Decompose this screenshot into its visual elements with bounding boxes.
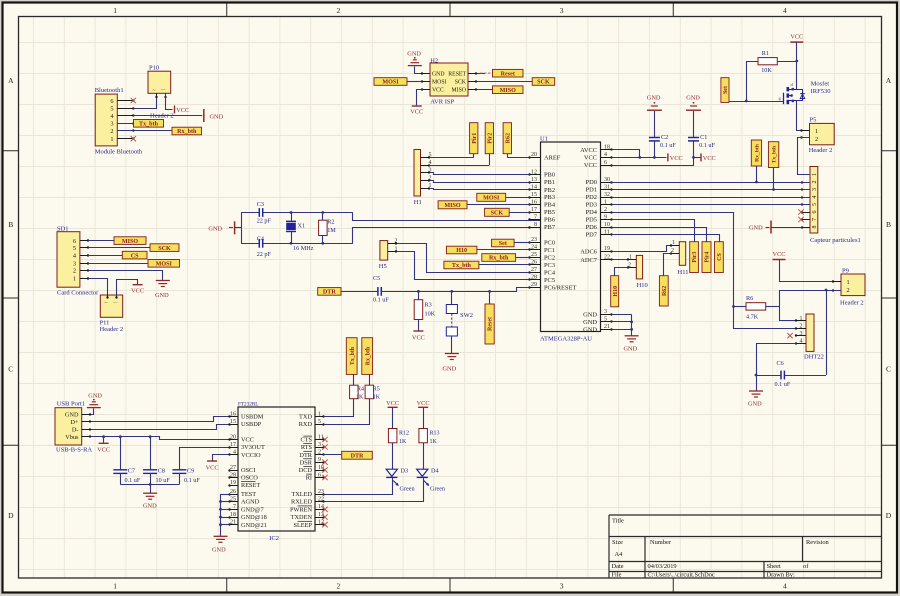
- svg-text:GND: GND: [583, 327, 597, 334]
- wire R1 right lead: [777, 61, 797, 63]
- power VCC top right: [790, 34, 803, 43]
- power GND earth at SD1: [155, 281, 170, 300]
- svg-text:D-: D-: [72, 427, 79, 434]
- svg-text:RTS: RTS: [301, 444, 313, 451]
- svg-text:D3: D3: [401, 468, 409, 475]
- wire Capteur pin8 to GND: [771, 227, 802, 229]
- wire U1 GND pins to earth: [612, 314, 632, 335]
- svg-text:5: 5: [812, 203, 818, 206]
- svg-text:—: —: [160, 87, 166, 92]
- wire H2 RESET to Reset label: [476, 72, 491, 74]
- svg-text:PC0: PC0: [544, 240, 555, 247]
- svg-text:20: 20: [531, 152, 537, 158]
- svg-text:MOSI: MOSI: [483, 196, 500, 202]
- svg-text:Set: Set: [499, 241, 507, 247]
- svg-text:RXD: RXD: [299, 421, 313, 428]
- svg-text:VCC: VCC: [131, 288, 144, 295]
- svg-text:10: 10: [604, 222, 610, 228]
- svg-text:VCC: VCC: [703, 155, 716, 162]
- diode D3 Green LED: [386, 468, 414, 493]
- svg-text:1: 1: [73, 276, 76, 283]
- wire R4 to TXD: [324, 399, 354, 417]
- svg-text:GND@7: GND@7: [241, 507, 264, 514]
- svg-text:4: 4: [812, 196, 818, 199]
- svg-text:VCC: VCC: [97, 447, 110, 454]
- capacitor C9 0.1uF: [172, 448, 229, 485]
- wire H5 pin2 to PC4: [397, 244, 530, 273]
- net label Tx_bth vertical at PD1: [768, 142, 778, 190]
- svg-text:VCC: VCC: [584, 162, 597, 169]
- svg-text:PD2: PD2: [586, 194, 597, 201]
- svg-text:7: 7: [534, 214, 537, 220]
- svg-text:26: 26: [531, 260, 537, 266]
- wire PD1 to Capteur pin3: [612, 189, 811, 191]
- svg-text:0.1 uF: 0.1 uF: [699, 142, 715, 149]
- svg-text:3: 3: [560, 6, 564, 15]
- svg-text:MOSI: MOSI: [432, 80, 447, 86]
- power VCC above R13: [417, 400, 430, 429]
- wire DTR pin: [324, 454, 342, 456]
- power GND earth above USB: [87, 393, 103, 408]
- svg-text:Tx_bth: Tx_bth: [772, 145, 778, 163]
- net label DTR at reset capacitor: [318, 288, 341, 296]
- svg-text:AVR ISP: AVR ISP: [430, 99, 454, 106]
- svg-text:D4: D4: [431, 468, 439, 475]
- svg-text:GND: GND: [407, 51, 421, 58]
- svg-text:VCCIO: VCCIO: [241, 452, 261, 459]
- header H10: [627, 255, 648, 290]
- wire H10 pin2 to H10 label: [615, 268, 629, 276]
- no-connect X on Bluetooth pin 6: [131, 98, 136, 103]
- svg-text:USB-B-S-RA: USB-B-S-RA: [56, 447, 92, 454]
- wire H2 SCK to SCK label: [476, 81, 532, 83]
- wire USB GND pin to earth: [91, 409, 94, 415]
- svg-text:1K: 1K: [356, 395, 364, 401]
- svg-text:C9: C9: [187, 468, 194, 475]
- svg-text:Green: Green: [400, 486, 415, 493]
- svg-text:16 MHz: 16 MHz: [293, 245, 314, 252]
- svg-text:PC5: PC5: [544, 277, 555, 284]
- net label H10 at PC1: [446, 246, 477, 254]
- svg-text:H1: H1: [414, 199, 422, 206]
- svg-text:1M: 1M: [327, 227, 336, 234]
- junction dots U1 GND bus: [630, 321, 633, 331]
- svg-text:R12: R12: [399, 431, 409, 437]
- net label Rx_bth at PC2: [482, 254, 516, 262]
- svg-text:PC2: PC2: [544, 255, 555, 262]
- svg-text:TXDEN: TXDEN: [291, 514, 313, 521]
- svg-text:PD0: PD0: [586, 179, 597, 186]
- power GND earth below C8: [143, 493, 157, 509]
- svg-text:B: B: [886, 220, 891, 229]
- svg-text:16: 16: [531, 199, 537, 205]
- svg-text:1: 1: [113, 582, 117, 591]
- wire SD pin1 to P11: [89, 279, 108, 296]
- svg-text:31: 31: [604, 184, 610, 190]
- wire H1 pin4 to Pir2: [429, 165, 489, 167]
- wire Bluetooth pin3 Tx_bth: [117, 123, 133, 125]
- header H5: [379, 238, 398, 270]
- wire VCC pin4 rail: [612, 157, 667, 159]
- wire H1 pin3 to PB0: [430, 173, 530, 175]
- net label Pir3 vertical at PD5: [690, 242, 699, 273]
- svg-text:USBDM: USBDM: [241, 414, 264, 421]
- capacitor C7 0.1uF: [113, 437, 141, 485]
- svg-text:MOSI: MOSI: [156, 262, 173, 268]
- svg-text:Pir1: Pir1: [472, 133, 478, 144]
- svg-text:VCC: VCC: [410, 109, 423, 116]
- svg-text:1: 1: [815, 128, 818, 135]
- net label SCK at SD1: [150, 244, 179, 252]
- svg-text:10 uF: 10 uF: [156, 477, 171, 484]
- svg-text:VCC: VCC: [206, 465, 219, 472]
- svg-text:11: 11: [604, 229, 610, 235]
- svg-text:4: 4: [604, 152, 607, 158]
- junction dots crystal: [290, 211, 325, 245]
- svg-text:PC4: PC4: [544, 270, 556, 277]
- crystal X1 16MHz: [286, 213, 314, 253]
- net label MOSI at H2: [374, 78, 407, 86]
- resistor R5 1K: [365, 385, 381, 400]
- wire USB D- to USBDP: [91, 425, 230, 430]
- svg-text:28: 28: [230, 472, 236, 478]
- svg-text:Header 2: Header 2: [840, 300, 864, 307]
- svg-text:of: of: [803, 563, 809, 570]
- net label H10 vertical: [611, 276, 619, 307]
- svg-text:22: 22: [604, 255, 610, 261]
- svg-text:21: 21: [230, 520, 236, 526]
- svg-text:1: 1: [318, 411, 321, 417]
- wire PD7 to CS: [612, 235, 720, 242]
- svg-text:2: 2: [815, 136, 818, 143]
- net label Tx_bth at PC3: [444, 261, 479, 269]
- net label Set at PC0: [492, 239, 514, 247]
- svg-text:VCC: VCC: [773, 251, 786, 258]
- resistor R6 4.7K: [746, 295, 766, 321]
- svg-text:PD3: PD3: [586, 202, 597, 209]
- wire PD4 to R6 and DHT22 data: [612, 213, 797, 329]
- svg-text:R6: R6: [746, 295, 753, 302]
- svg-text:CS: CS: [131, 253, 139, 259]
- svg-text:RESET: RESET: [448, 71, 466, 77]
- svg-text:16: 16: [230, 411, 236, 417]
- svg-text:PD4: PD4: [586, 209, 598, 216]
- svg-text:AGND: AGND: [241, 499, 260, 506]
- wire AVCC to VCC rail: [612, 150, 640, 158]
- svg-text:C:\Users\..\circuit.SchDoc: C:\Users\..\circuit.SchDoc: [648, 572, 715, 579]
- wire USB D+ to USBDM: [91, 417, 230, 422]
- svg-text:VCC: VCC: [417, 400, 430, 407]
- net label CS at SD1: [122, 251, 147, 259]
- svg-text:GND: GND: [208, 226, 222, 233]
- power VCC at P11: [131, 285, 144, 295]
- svg-text:VCC: VCC: [790, 34, 803, 41]
- svg-text:H11: H11: [678, 269, 689, 276]
- resistor R13 1K: [419, 429, 440, 446]
- svg-text:13: 13: [531, 177, 537, 183]
- net label Pir4 vertical at PD6: [702, 242, 711, 273]
- svg-text:PD6: PD6: [586, 224, 597, 231]
- wire C6 right to P9 pin2 net: [784, 290, 826, 376]
- svg-text:SCK: SCK: [455, 80, 467, 86]
- wire SD pin6 MISO: [88, 240, 114, 242]
- svg-text:Rx_bth: Rx_bth: [489, 256, 509, 262]
- svg-text:2: 2: [847, 287, 850, 294]
- junction dot gate wire: [745, 100, 748, 103]
- resistor R12 1K: [388, 429, 409, 446]
- svg-text:23: 23: [531, 237, 537, 243]
- resistor R3 10K: [414, 291, 435, 330]
- svg-text:0.1 uF: 0.1 uF: [373, 297, 389, 304]
- svg-text:6: 6: [604, 160, 607, 166]
- svg-text:VCC: VCC: [241, 437, 254, 444]
- svg-text:H5: H5: [379, 263, 387, 270]
- no-connect X on Bluetooth pin 1: [131, 136, 136, 141]
- svg-text:GND: GND: [443, 366, 457, 373]
- wire Tx_bth to PC3: [479, 264, 530, 266]
- svg-text:Pir2: Pir2: [487, 133, 493, 144]
- no-connect X Capteur pin7: [798, 217, 803, 222]
- power VCC at H2: [410, 106, 423, 116]
- svg-text:28: 28: [531, 275, 537, 281]
- svg-text:VCC: VCC: [584, 155, 597, 162]
- net label Rx_bth vertical at R5: [362, 338, 373, 386]
- svg-text:24: 24: [531, 245, 537, 251]
- svg-text:7: 7: [233, 504, 236, 510]
- svg-text:D: D: [886, 511, 892, 520]
- power VCC at DHT22 area: [773, 251, 786, 260]
- svg-text:25: 25: [531, 252, 537, 258]
- no-connect X marks on IC2 right pins: [322, 437, 327, 528]
- svg-text:MISO: MISO: [452, 88, 467, 94]
- svg-text:AREF: AREF: [544, 155, 561, 162]
- transistor Q1 Mosfet IRF530: [779, 81, 831, 105]
- svg-text:DTR: DTR: [323, 290, 336, 296]
- wire SD pin4 CS: [88, 255, 122, 257]
- svg-text:2: 2: [337, 582, 341, 591]
- wire P10 pin2 to VCC: [166, 94, 173, 110]
- ic U1 left pins: [528, 152, 576, 291]
- net label Reset at H2: [493, 69, 524, 77]
- svg-text:GND: GND: [748, 401, 762, 408]
- wire PD5 to Pir3: [612, 220, 695, 242]
- svg-text:FT232RL: FT232RL: [238, 401, 258, 407]
- svg-text:Bluetooth1: Bluetooth1: [95, 87, 124, 94]
- svg-text:ADC7: ADC7: [580, 257, 597, 264]
- svg-text:GND: GND: [686, 95, 700, 102]
- header P10: [148, 65, 174, 120]
- svg-text:Title: Title: [612, 518, 624, 525]
- svg-text:0.1 uF: 0.1 uF: [660, 142, 676, 149]
- svg-text:5: 5: [318, 419, 321, 425]
- svg-text:Rx_bth: Rx_bth: [755, 143, 761, 162]
- svg-text:17: 17: [531, 207, 537, 213]
- svg-text:GND: GND: [432, 71, 445, 77]
- sensor DHT22: [795, 314, 824, 361]
- svg-text:TXD: TXD: [299, 414, 312, 421]
- svg-text:PD1: PD1: [586, 187, 597, 194]
- svg-text:19: 19: [604, 246, 610, 252]
- svg-text:VCC: VCC: [432, 88, 444, 94]
- power GND bar at crystal: [208, 221, 234, 234]
- svg-text:GND: GND: [88, 393, 102, 400]
- svg-text:Number: Number: [650, 539, 672, 546]
- svg-text:MOSI: MOSI: [382, 80, 399, 86]
- svg-text:3: 3: [560, 582, 564, 591]
- svg-text:1: 1: [604, 199, 607, 205]
- svg-text:~: ~: [153, 88, 156, 94]
- svg-text:0.1 uF: 0.1 uF: [775, 381, 791, 388]
- wire crystal top rail: [241, 212, 353, 214]
- svg-text:ATMEGA328P-AU: ATMEGA328P-AU: [540, 336, 592, 343]
- svg-text:R62: R62: [662, 286, 668, 296]
- svg-text:Mosfet: Mosfet: [811, 81, 830, 88]
- header H2 AVR ISP: [421, 58, 477, 106]
- wire PD2 to Capteur pin4: [612, 197, 811, 199]
- svg-text:DHT22: DHT22: [804, 354, 824, 361]
- wire Set to PC0: [514, 242, 529, 244]
- wire P5 pin2 down to Capteur pin1: [798, 138, 811, 175]
- net label MISO at PB4: [438, 201, 467, 209]
- svg-text:R5: R5: [373, 387, 380, 393]
- svg-text:GND: GND: [583, 312, 597, 319]
- svg-text:ADC6: ADC6: [580, 249, 597, 256]
- wire R13 to D4: [423, 443, 425, 469]
- svg-text:17: 17: [230, 442, 236, 448]
- capacitor C4 22pF: [257, 236, 272, 259]
- svg-text:D: D: [8, 511, 14, 520]
- net label Tx_bth vertical at R4: [346, 338, 357, 386]
- svg-text:PB4: PB4: [544, 202, 556, 209]
- wire reset net to PC6: [382, 288, 530, 292]
- wire D3 to TXLED: [324, 478, 393, 495]
- svg-text:9: 9: [604, 214, 607, 220]
- svg-text:Reset: Reset: [501, 71, 515, 77]
- svg-text:1: 1: [847, 279, 850, 286]
- wire AREF: [507, 157, 529, 159]
- svg-text:Tx_bth: Tx_bth: [350, 346, 356, 365]
- svg-text:5: 5: [604, 317, 607, 323]
- svg-text:4.7K: 4.7K: [746, 314, 759, 321]
- wire MOSI to H2: [407, 81, 422, 83]
- svg-text:R62: R62: [505, 133, 511, 143]
- svg-text:GND: GND: [647, 95, 661, 102]
- svg-text:A4: A4: [615, 551, 624, 558]
- svg-text:26: 26: [230, 489, 236, 495]
- svg-text:X1: X1: [298, 223, 306, 230]
- wire VCC to mosfet drain: [796, 42, 798, 89]
- svg-text:IRF530: IRF530: [811, 88, 831, 95]
- connector Capteur particules1: [801, 167, 861, 245]
- svg-text:22 pF: 22 pF: [257, 251, 272, 258]
- header H1: [414, 150, 432, 207]
- svg-text:22: 22: [318, 496, 324, 502]
- svg-text:Date: Date: [612, 563, 624, 570]
- svg-text:12: 12: [531, 169, 537, 175]
- junction dot C6 left: [755, 374, 758, 377]
- wire R1 left lead down to gate: [747, 62, 759, 102]
- wire P11 pin2 to VCC: [117, 280, 138, 296]
- wire H11 pin2 to R62 label: [664, 254, 672, 276]
- resistor R2 1M: [319, 213, 337, 244]
- title block: [609, 515, 882, 579]
- svg-text:H10: H10: [456, 248, 467, 254]
- wire SCK to PB5: [509, 212, 529, 214]
- svg-text:GND: GND: [212, 547, 226, 554]
- svg-text:H10: H10: [637, 282, 648, 289]
- diode D4 Green LED: [417, 468, 445, 493]
- svg-text:15: 15: [531, 192, 537, 198]
- net label R62 vertical at AREF: [503, 123, 511, 158]
- svg-text:3: 3: [110, 121, 113, 128]
- connector SD1 Card Connector: [57, 226, 99, 297]
- svg-text:7: 7: [812, 218, 818, 221]
- svg-text:Size: Size: [612, 539, 623, 546]
- net label Pir2 vertical: [485, 123, 493, 165]
- svg-text:VCC: VCC: [386, 400, 399, 407]
- svg-text:23: 23: [318, 489, 324, 495]
- svg-text:PC1: PC1: [544, 247, 555, 254]
- wire gate: [725, 101, 784, 103]
- ic U1 ATMEGA328P-AU body: [540, 136, 601, 343]
- resistor R1 10K: [758, 50, 777, 74]
- svg-text:32: 32: [604, 192, 610, 198]
- svg-text:VCC: VCC: [670, 155, 683, 162]
- svg-text:1K: 1K: [373, 395, 381, 401]
- svg-text:19: 19: [230, 480, 236, 486]
- ic IC2 FT232RL body: [238, 401, 315, 542]
- svg-text:Tx_bth: Tx_bth: [139, 122, 159, 128]
- svg-text:6: 6: [318, 472, 321, 478]
- svg-text:Pir3: Pir3: [692, 252, 698, 263]
- svg-text:RESET: RESET: [241, 482, 260, 489]
- power VCC below R3: [412, 331, 425, 342]
- svg-text:3: 3: [812, 188, 818, 191]
- wire Bluetooth pin2 Rx_bth: [117, 130, 172, 132]
- svg-text:5: 5: [110, 105, 113, 112]
- svg-text:GND: GND: [65, 412, 79, 419]
- svg-text:3: 3: [604, 309, 607, 315]
- svg-text:27: 27: [230, 465, 236, 471]
- wire H10 to PC1: [477, 249, 530, 251]
- no-connect X Capteur pin6: [798, 209, 803, 214]
- wire PD3 to Capteur pin5: [612, 204, 811, 206]
- svg-text:P9: P9: [842, 268, 849, 275]
- capacitor C2 0.1uF: [649, 111, 676, 157]
- svg-text:18: 18: [230, 512, 236, 518]
- net label R62 vertical at H11: [659, 276, 668, 306]
- svg-text:2: 2: [604, 207, 607, 213]
- svg-text:6: 6: [73, 238, 76, 245]
- svg-text:GND: GND: [583, 319, 597, 326]
- wire to DHT22 pin1: [779, 320, 796, 322]
- svg-text:PD5: PD5: [586, 217, 597, 224]
- power GND earth above C1: [686, 95, 701, 111]
- svg-text:A: A: [8, 76, 14, 85]
- power GND earth above C2: [647, 95, 662, 111]
- svg-text:CTS: CTS: [300, 437, 312, 444]
- wire SD pin5 SCK: [88, 247, 150, 249]
- wire crystal to PB7: [353, 228, 541, 244]
- svg-text:3: 3: [800, 331, 803, 337]
- svg-text:DSR: DSR: [300, 459, 313, 466]
- svg-text:PD7: PD7: [586, 232, 598, 239]
- wire H1 pin5 to Pir1: [429, 157, 474, 159]
- svg-text:GND: GND: [143, 503, 157, 510]
- wire C6 left: [756, 375, 781, 377]
- svg-text:PB7: PB7: [544, 224, 556, 231]
- svg-text:SW2: SW2: [460, 312, 473, 319]
